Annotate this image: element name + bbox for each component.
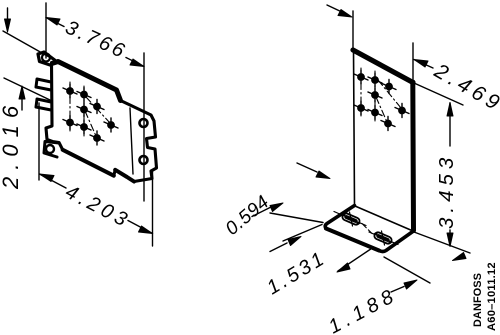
- label A60-1011.12: [486, 262, 498, 331]
- dashed center lines in pattern: [361, 68, 401, 122]
- arrow 2.016 top (down): [5, 19, 11, 32]
- text 1.188: [325, 284, 402, 335]
- hole tick marks: [354, 70, 409, 131]
- dimension line 4.203 right segment: [128, 221, 153, 234]
- dimension 2.016 top arrow line: [7, 8, 9, 20]
- base slot 2: [369, 231, 398, 245]
- left tab bar 1: [36, 79, 51, 90]
- dimension line 4.203 left segment: [40, 174, 67, 188]
- text 1.531: [263, 247, 330, 299]
- arrow 3.766 right: [130, 59, 144, 67]
- text 3.453: [435, 153, 458, 229]
- right tab hole lower (donut): [140, 156, 148, 164]
- dimension line 3.453 lower segment: [449, 230, 451, 244]
- base outline: [325, 206, 413, 252]
- center hole pattern (8 filled holes with tick marks): [66, 87, 115, 142]
- plate top edge thick: [58, 62, 121, 101]
- corner hole bottom-left (donut): [46, 145, 54, 153]
- arrow 2.016 bottom (up): [19, 86, 25, 99]
- extension line 4.203 right: [152, 170, 154, 246]
- plate right inner fold line: [130, 108, 133, 174]
- extension line 3.453 top (from plate TR corner): [414, 83, 463, 105]
- dim 1.531 right line: [338, 248, 373, 272]
- svg-text:DANFOSS: DANFOSS: [472, 273, 484, 327]
- fold line plate/base: [355, 206, 413, 231]
- svg-text:A60–1011.12: A60–1011.12: [486, 262, 498, 331]
- plate bottom edge thick: [63, 150, 134, 182]
- plate main outline: [46, 61, 157, 182]
- arrow 4.203 left: [40, 174, 55, 182]
- ext line base-left corner (-u direction): [270, 213, 323, 223]
- dimension line 2.469: [414, 60, 433, 69]
- base slot 1: [334, 212, 366, 227]
- top pointer arrow: [327, 5, 344, 13]
- corner hole top-left (donut): [42, 54, 50, 62]
- text 2.016: [0, 99, 23, 190]
- ext line base-left corner (w direction down-left): [283, 225, 322, 242]
- svg-text:3.453: 3.453: [435, 153, 458, 229]
- base front edge thick: [326, 229, 379, 251]
- right tab hole upper (donut): [140, 119, 148, 127]
- arrow 1.188 right (up-right): [404, 280, 417, 289]
- dim 0.594 line: [252, 208, 270, 217]
- extension line 3.453 bottom (from base right corner): [414, 232, 470, 253]
- extension line 4.203 left: [38, 103, 40, 180]
- label DANFOSS: [472, 273, 484, 327]
- extension line from plate TL up: [352, 11, 354, 50]
- unlabeled pointer arrow to plate left edge: [297, 163, 317, 172]
- extension line 2.016 bottom (from plate left step): [4, 78, 50, 100]
- bracket vertical plate outline: [354, 49, 355, 206]
- text 2.469: [430, 59, 500, 117]
- dash-dot between slots: [362, 224, 372, 234]
- plate right edge (thick): [410, 82, 416, 231]
- text 3.766: [62, 17, 130, 64]
- hole tick marks: [63, 84, 118, 145]
- arrowhead on base ext line (down-left): [453, 253, 467, 261]
- dim 1.188 line right: [391, 287, 404, 293]
- ext line from base bottom corner: [384, 257, 430, 283]
- text 4.203: [62, 181, 134, 233]
- dim 1.531 left line: [270, 243, 287, 252]
- extension line B (right, through right tab holes): [143, 53, 145, 201]
- bottom-left small tab with hole: [44, 142, 59, 158]
- text 0.594: [222, 192, 274, 240]
- dimension line 3.766 left segment: [46, 18, 64, 27]
- dimension 2.016 bottom arrow line: [21, 88, 23, 110]
- extension line from plate TR up: [412, 43, 414, 79]
- arrow 1.531 right (down-left): [337, 263, 350, 272]
- dimension line 3.766 right segment: [126, 58, 144, 67]
- dashed center lines in pattern: [70, 82, 110, 136]
- arrow 3.453 bottom (down): [447, 233, 453, 247]
- arrow 2.469: [414, 60, 428, 68]
- plate hole pattern (8 filled holes): [357, 73, 406, 127]
- svg-text:2.016: 2.016: [0, 99, 23, 190]
- arrow 0.594: [270, 203, 283, 212]
- arrow 3.766 left: [46, 18, 60, 26]
- arrow 3.453 top (up): [447, 103, 453, 117]
- arrow 1.531 left: [288, 237, 301, 246]
- arrow 4.203 right: [139, 226, 153, 234]
- left tab bar 2: [36, 99, 51, 110]
- dimension line 3.453 upper segment: [449, 103, 451, 146]
- extension line 2.016 top (from plate TL corner): [3, 31, 58, 62]
- plate top-left tab: [38, 52, 58, 65]
- extension line A (left, through top-left hole): [45, 3, 47, 58]
- plate top edge (thick): [353, 50, 413, 83]
